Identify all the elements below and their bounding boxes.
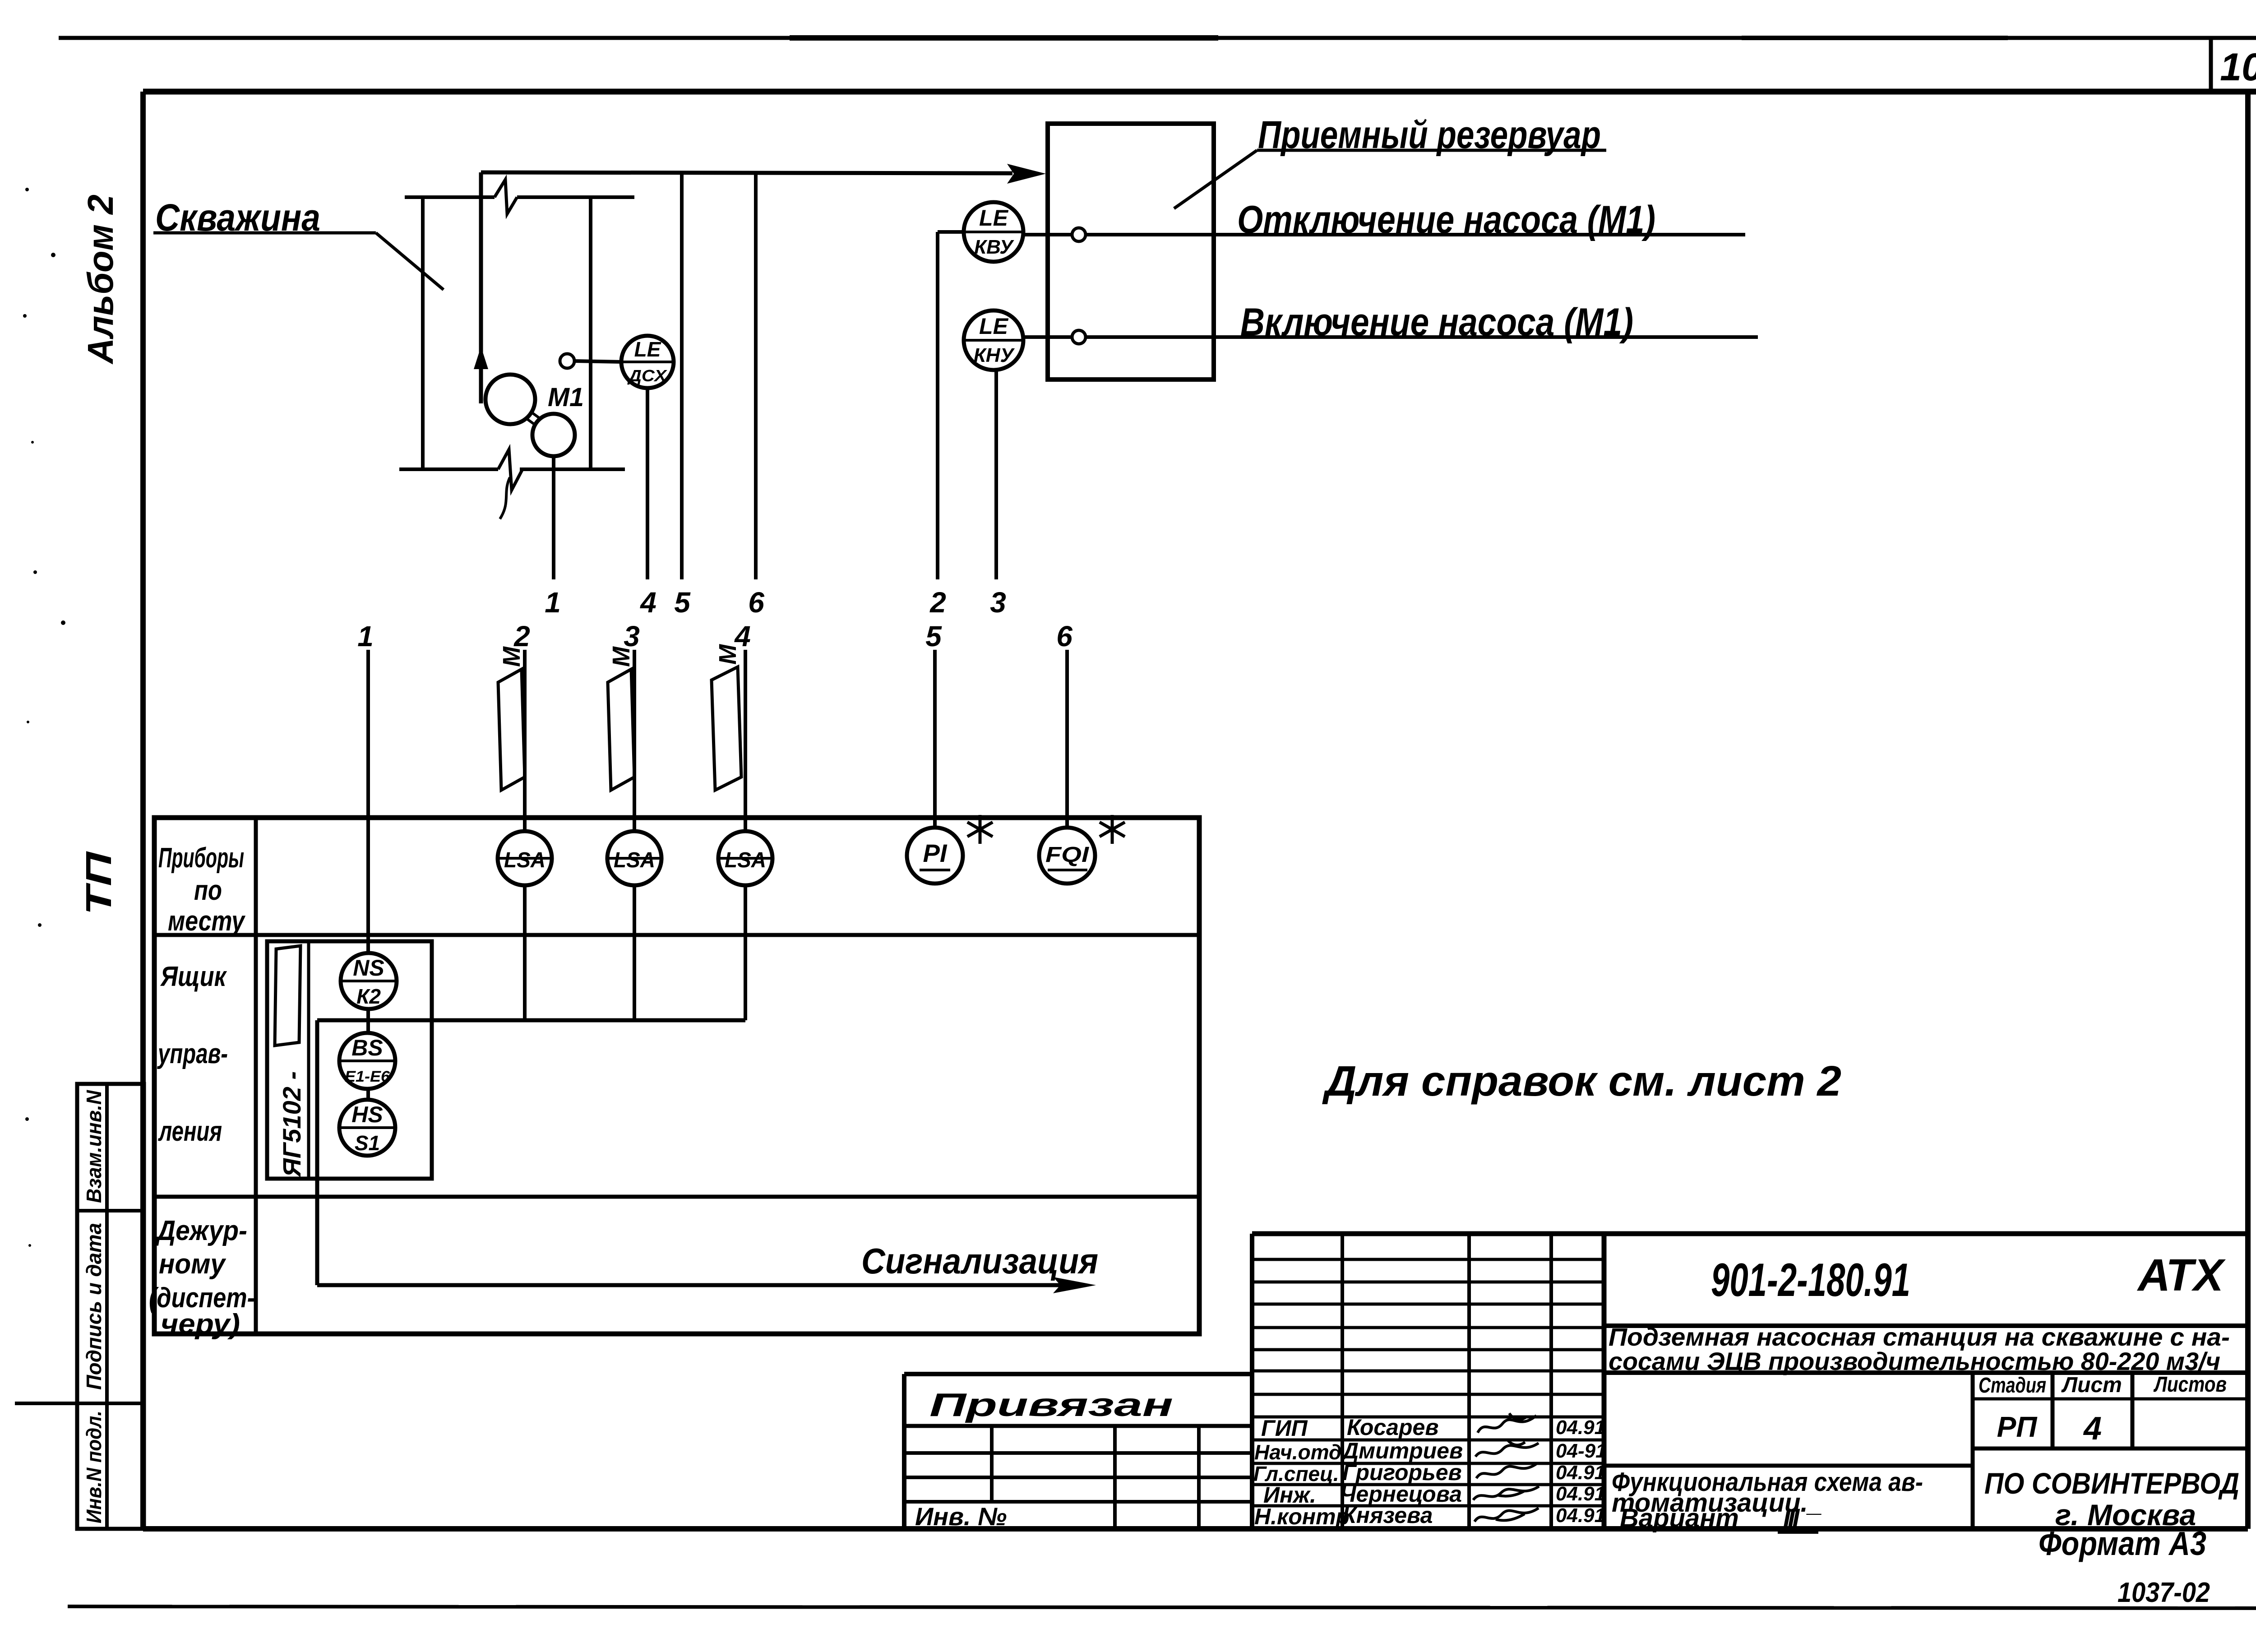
svg-text:по: по: [194, 875, 222, 906]
svg-text:Листов: Листов: [2153, 1373, 2227, 1397]
sensor port circle: [560, 354, 574, 368]
scan specks: [23, 188, 65, 1247]
wire 6 lower: [1065, 650, 1069, 857]
riser pipe: [479, 172, 483, 403]
instrument NS K2: [341, 953, 397, 1009]
svg-text:BS: BS: [351, 1035, 383, 1060]
svg-text:1: 1: [545, 586, 561, 619]
svg-text:LE: LE: [979, 205, 1009, 231]
well casing bottom line with break: [399, 449, 625, 519]
pipe arrowhead into reservoir: [1007, 164, 1046, 184]
sheet top edge line: [59, 36, 2256, 40]
svg-text:Н.контр: Н.контр: [1254, 1504, 1350, 1529]
wire 3 lower: [633, 650, 636, 1020]
wire 2 upper (LE KVU left-down): [938, 232, 993, 579]
svg-text:4: 4: [2083, 1411, 2102, 1447]
svg-text:Для справок см. лист 2: Для справок см. лист 2: [1322, 1057, 1841, 1105]
main table frame: [154, 818, 1199, 1334]
svg-text:Приборы: Приборы: [158, 842, 244, 874]
svg-text:4: 4: [639, 586, 656, 619]
wire 5 upper tap: [680, 172, 684, 579]
svg-text:LSA: LSA: [504, 848, 546, 872]
svg-text:Отключение насоса (М1): Отключение насоса (М1): [1237, 198, 1655, 241]
svg-text:1037-02: 1037-02: [2117, 1577, 2210, 1608]
wire 4 lower: [744, 650, 747, 1020]
headers Stadiya List Listov: [1979, 1373, 2227, 1397]
svg-text:S1: S1: [355, 1131, 380, 1155]
svg-text:LE: LE: [979, 314, 1009, 339]
svg-text:Стадия: Стадия: [1979, 1374, 2046, 1397]
left margin cell table: [77, 1084, 144, 1529]
instrument HS S1: [339, 1100, 395, 1156]
svg-text:Ящик: Ящик: [160, 961, 227, 992]
cable symbol wire 4: [712, 644, 741, 790]
contact circle on Vkl line: [1072, 330, 1086, 344]
svg-text:ДСХ: ДСХ: [627, 366, 668, 385]
svg-text:04.91: 04.91: [1556, 1416, 1605, 1439]
svg-text:ному: ному: [159, 1249, 227, 1280]
wire 5 lower: [933, 650, 937, 857]
svg-text:04-91: 04-91: [1556, 1440, 1607, 1462]
link port to LE DSKh: [574, 361, 623, 362]
svg-text:сосами ЭЦВ производительностью: сосами ЭЦВ производительностью 80-220 м3…: [1609, 1347, 2220, 1375]
svg-text:3: 3: [990, 586, 1006, 619]
svg-text:LSA: LSA: [614, 848, 655, 872]
svg-text:ТП: ТП: [79, 851, 119, 915]
cable symbol wire 2: [498, 646, 525, 790]
svg-text:Сигнализация: Сигнализация: [861, 1241, 1098, 1281]
signal line Vkl: [1023, 335, 1758, 339]
wire 1 lower: [366, 650, 370, 1156]
signal arrow line: [317, 1277, 1096, 1293]
stub line left of margin table: [15, 1402, 77, 1405]
contact circle on Otkl line: [1072, 228, 1086, 241]
svg-text:LE: LE: [634, 338, 661, 361]
svg-text:управ-: управ-: [157, 1038, 228, 1069]
svg-text:LSA: LSA: [725, 848, 766, 872]
svg-text:Включение насоса (М1): Включение насоса (М1): [1240, 301, 1633, 344]
instrument LSA 3: [718, 831, 772, 885]
svg-text:PI: PI: [923, 839, 948, 867]
svg-text:Е1-Е6: Е1-Е6: [345, 1068, 390, 1085]
pump M1 small circle: [532, 414, 575, 456]
privyazan table: [904, 1374, 1252, 1529]
svg-text:черу): черу): [161, 1309, 240, 1340]
values RP 4: [1997, 1411, 2102, 1447]
discharge pipe to reservoir: [481, 172, 1012, 173]
signature table verticals: [1252, 1234, 1604, 1529]
svg-text:04.91: 04.91: [1556, 1462, 1605, 1484]
well casing top line with break: [405, 180, 634, 214]
instrument LE KVU: [964, 202, 1023, 262]
title block right part lines: [1604, 1326, 2248, 1529]
label Skvazhina: [153, 196, 444, 290]
svg-text:6: 6: [748, 586, 764, 619]
wire number labels upper row: [545, 586, 1006, 619]
svg-text:ПО СОВИНТЕРВОД: ПО СОВИНТЕРВОД: [1984, 1467, 2239, 1500]
svg-text:М: М: [714, 644, 741, 665]
svg-text:РП: РП: [1997, 1411, 2038, 1443]
drawing name lines: [1612, 1467, 1923, 1533]
svg-text:HS: HS: [351, 1102, 383, 1127]
svg-text:10: 10: [2220, 46, 2256, 89]
svg-text:04.91: 04.91: [1556, 1483, 1605, 1505]
svg-text:Инв.N подл.: Инв.N подл.: [82, 1411, 106, 1523]
svg-text:М: М: [608, 646, 635, 667]
svg-text:КВУ: КВУ: [974, 236, 1014, 258]
cable symbol wire 3: [608, 646, 635, 790]
pump M1 coupling shaft: [526, 412, 541, 426]
flow arrow up on riser: [474, 347, 488, 369]
project name lines: [1609, 1323, 2230, 1375]
instrument PI: [907, 828, 963, 884]
svg-text:FQI: FQI: [1045, 843, 1090, 867]
wire 1 upper (from pump): [552, 435, 555, 579]
svg-text:Взам.инв.N: Взам.инв.N: [82, 1090, 106, 1203]
instrument LE DSKh: [621, 336, 674, 388]
svg-text:ГИП: ГИП: [1261, 1416, 1308, 1441]
sheet bottom edge line: [68, 1606, 2256, 1608]
asterisk near FQI: [1100, 815, 1125, 844]
asterisk near PI: [967, 815, 993, 844]
svg-text:Подпись и дата: Подпись и дата: [82, 1223, 106, 1390]
row label Pribory po mestu: [158, 842, 246, 937]
wire 2 lower: [523, 650, 527, 1020]
svg-text:ЯГ5102 -: ЯГ5102 -: [277, 1071, 306, 1178]
instrument LE KNU: [964, 310, 1023, 370]
svg-text:М: М: [498, 646, 525, 667]
instrument LSA 1: [498, 831, 552, 885]
svg-text:АТХ: АТХ: [2136, 1250, 2226, 1300]
page number box 10: [2211, 38, 2256, 92]
org PO SOVINTERVOD: [1984, 1467, 2239, 1532]
signature table row lines: [1252, 1259, 1604, 1506]
signal line Otkl: [1023, 233, 1745, 236]
svg-text:901-2-180.91: 901-2-180.91: [1711, 1254, 1910, 1306]
row label Yashchik upravleniya: [157, 961, 228, 1147]
svg-text:2: 2: [929, 586, 946, 619]
pump M1 big circle: [485, 375, 535, 424]
svg-text:М1: М1: [548, 383, 584, 412]
svg-text:КНУ: КНУ: [974, 344, 1015, 366]
control box YaU: [267, 941, 432, 1179]
wire 4 upper (from LE DSKh): [646, 363, 649, 579]
svg-text:1: 1: [357, 620, 374, 652]
title block top line: [1252, 1231, 2248, 1236]
instrument FQI: [1039, 828, 1095, 884]
wire bus to control box: [317, 1018, 745, 1023]
well casing right wall: [589, 197, 592, 469]
svg-text:5: 5: [674, 586, 691, 619]
svg-text:6: 6: [1056, 620, 1073, 652]
svg-text:Привязан: Привязан: [929, 1387, 1173, 1423]
svg-text:Альбом 2: Альбом 2: [80, 194, 120, 365]
svg-text:NS: NS: [353, 955, 384, 981]
svg-text:Дежур-: Дежур-: [155, 1215, 247, 1246]
svg-text:Косарев: Косарев: [1347, 1415, 1439, 1440]
svg-text:04.91: 04.91: [1556, 1504, 1605, 1527]
svg-text:Князева: Князева: [1342, 1503, 1433, 1528]
svg-text:Вариант: Вариант: [1620, 1504, 1739, 1533]
svg-text:месту: месту: [168, 906, 246, 937]
signature squiggles: [1473, 1413, 1539, 1522]
label Priemny rezervuar: [1174, 113, 1606, 208]
svg-text:Лист: Лист: [2061, 1373, 2122, 1397]
svg-text:Нач.отд.: Нач.отд.: [1254, 1440, 1347, 1464]
wire 3 upper (LE KNU down): [994, 340, 998, 579]
receiving reservoir box: [1048, 124, 1214, 379]
svg-text:К2: К2: [356, 985, 381, 1008]
wire signal down: [315, 1020, 319, 1285]
svg-text:ления: ления: [158, 1116, 222, 1147]
svg-text:5: 5: [925, 620, 942, 652]
instrument LSA 2: [607, 831, 661, 885]
instrument BS E1-E6: [339, 1033, 395, 1089]
signature rows text: [1253, 1415, 1607, 1529]
wire number labels lower row: [357, 620, 1073, 652]
wire 6 upper tap: [754, 172, 758, 579]
svg-text:Инв. №: Инв. №: [915, 1502, 1007, 1531]
svg-text:Формат А3: Формат А3: [2039, 1525, 2206, 1562]
row label Dezhurnomu dispetcheru: [149, 1215, 255, 1340]
well casing left wall: [421, 196, 425, 469]
